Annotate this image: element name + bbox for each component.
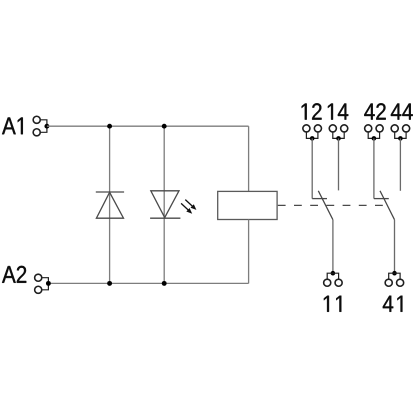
LED V2 emission arrow 2 [181, 203, 192, 213]
wire contact 1 common lead 11 [332, 220, 334, 274]
contact 2 moving arm [380, 191, 395, 220]
label 14 [328, 104, 348, 120]
mechanical link dashed line [278, 204, 385, 206]
label A1 [2, 117, 23, 134]
terminal A1 [33, 116, 47, 136]
junction dot bottom diode node [107, 281, 112, 286]
label 11 [324, 296, 341, 312]
wire contact 1 NO lead 14 [338, 138, 340, 190]
terminal 42 [365, 125, 384, 139]
junction dot A1 [44, 124, 49, 129]
LED V2 cathode bar [150, 217, 180, 219]
label 12 [302, 103, 322, 119]
junction dot terminal 11 [331, 271, 336, 276]
wire top horizontal A1 rail [47, 125, 249, 127]
terminal 14 [329, 125, 348, 139]
contact 1 seat bar [312, 198, 327, 200]
wire contact 2 common lead 41 [394, 220, 396, 274]
junction dot A2 [46, 281, 51, 286]
diode V1 triangle [96, 192, 123, 218]
wire bottom horizontal A2 rail [48, 282, 248, 284]
junction dot bottom LED node [162, 281, 167, 286]
terminal A2 [35, 274, 49, 293]
junction dot terminal 14 [336, 136, 341, 141]
junction dot top diode node [107, 124, 112, 129]
relay coil K1 [218, 191, 277, 219]
terminal 41 [385, 273, 404, 286]
label A2 [2, 266, 26, 283]
LED V2 triangle [151, 191, 179, 218]
wire contact 1 NC lead 12 [311, 138, 313, 198]
label 41 [383, 296, 403, 312]
wire relay branch bottom [248, 220, 250, 284]
label 44 [391, 104, 413, 120]
contact 2 seat bar [374, 198, 389, 200]
junction dot terminal 42 [372, 136, 377, 141]
terminal 11 [324, 273, 343, 286]
contact 1 moving arm [318, 191, 333, 220]
LED V2 emission arrow 1 [185, 200, 196, 210]
junction dot terminal 41 [392, 271, 397, 276]
junction dot top LED node [162, 124, 167, 129]
label 42 [364, 103, 385, 119]
wire LED branch [163, 126, 165, 283]
wire contact 2 NC lead 42 [373, 138, 375, 198]
junction dot terminal 12 [310, 136, 315, 141]
wire diode branch [109, 126, 111, 283]
wire relay branch top [248, 126, 250, 191]
terminal 12 [303, 125, 322, 139]
wire contact 2 NO lead 44 [399, 138, 401, 190]
junction dot terminal 44 [398, 136, 403, 141]
diode V1 cathode bar [96, 191, 124, 193]
terminal 44 [391, 125, 410, 139]
